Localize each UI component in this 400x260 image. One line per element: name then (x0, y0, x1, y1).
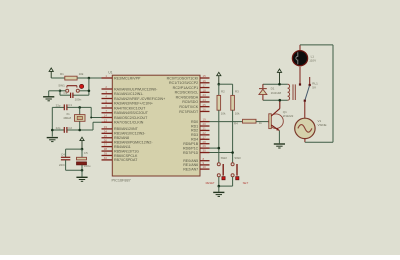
svg-text:RB1/AN10/C12IN3-: RB1/AN10/C12IN3- (114, 132, 146, 136)
svg-text:RC5/SDO: RC5/SDO (182, 100, 198, 104)
svg-text:22p: 22p (56, 126, 61, 130)
svg-text:RD2: RD2 (191, 129, 198, 133)
svg-text:38: 38 (104, 147, 108, 151)
svg-text:RB5/AN13/T1G: RB5/AN13/T1G (114, 149, 139, 153)
svg-text:220n: 220n (59, 163, 66, 167)
svg-text:RA7/OSC1/CLKIN: RA7/OSC1/CLKIN (114, 121, 144, 125)
svg-text:RA3/AN3/VREF+/C1IN+: RA3/AN3/VREF+/C1IN+ (114, 102, 153, 106)
svg-text:RC3/SCK/SCL: RC3/SCK/SCL (175, 91, 199, 95)
svg-text:RD7/P1D: RD7/P1D (183, 151, 199, 155)
svg-text:10k: 10k (79, 72, 84, 76)
svg-text:RD1: RD1 (191, 124, 198, 128)
svg-text:RB3/AN9/PGM/C12IN2-: RB3/AN9/PGM/C12IN2- (114, 140, 153, 144)
svg-text:RC4/SDI/SDA: RC4/SDI/SDA (176, 95, 199, 99)
svg-text:15: 15 (203, 74, 207, 78)
svg-text:28: 28 (203, 140, 207, 144)
svg-text:RD3: RD3 (191, 133, 198, 137)
svg-text:30: 30 (203, 149, 207, 153)
svg-text:RA5/AN4/SS/C2OUT: RA5/AN4/SS/C2OUT (114, 111, 149, 115)
svg-text:27: 27 (203, 135, 207, 139)
svg-text:20: 20 (203, 122, 207, 126)
svg-text:RB0/AN12/INT: RB0/AN12/INT (114, 127, 139, 131)
svg-text:PIC16F887: PIC16F887 (112, 179, 131, 183)
svg-text:RC1/T1OSI/CCP2: RC1/T1OSI/CCP2 (169, 81, 198, 85)
svg-text:17: 17 (203, 84, 207, 88)
svg-text:29: 29 (203, 144, 207, 148)
svg-text:13: 13 (104, 118, 108, 122)
svg-text:110V: 110V (309, 59, 316, 63)
svg-text:36: 36 (104, 138, 108, 142)
svg-text:23: 23 (203, 93, 207, 97)
svg-text:RA1/AN1/C12IN1-: RA1/AN1/C12IN1- (114, 92, 144, 96)
svg-text:C2: C2 (68, 126, 72, 130)
svg-text:RA6/OSC2/CLKOUT: RA6/OSC2/CLKOUT (114, 116, 148, 120)
svg-text:34: 34 (104, 129, 108, 133)
svg-text:R4: R4 (234, 122, 238, 126)
svg-text:10: 10 (203, 165, 207, 169)
svg-text:RC0/T1OSO/T1CKI: RC0/T1OSO/T1CKI (167, 76, 199, 80)
svg-text:14: 14 (104, 114, 108, 118)
svg-text:25: 25 (203, 103, 207, 107)
svg-text:RESET: RESET (206, 181, 215, 185)
svg-text:35: 35 (104, 134, 108, 138)
svg-text:RB4/AN11: RB4/AN11 (114, 145, 131, 149)
svg-text:RC7/RX/DT: RC7/RX/DT (179, 110, 199, 114)
svg-text:SW1: SW1 (58, 84, 65, 88)
svg-text:19: 19 (203, 118, 207, 122)
svg-text:RE2/AN7: RE2/AN7 (183, 167, 198, 171)
svg-text:24: 24 (203, 98, 207, 102)
svg-text:RD0: RD0 (191, 120, 198, 124)
svg-text:22p: 22p (56, 104, 61, 108)
svg-text:33: 33 (104, 125, 108, 129)
svg-text:10k: 10k (221, 112, 226, 116)
svg-text:16: 16 (203, 79, 207, 83)
svg-text:2N2222: 2N2222 (283, 114, 294, 118)
svg-text:C1: C1 (68, 103, 72, 107)
svg-text:RC6/TX/CK: RC6/TX/CK (179, 105, 198, 109)
svg-text:RE3/MCLR/VPP: RE3/MCLR/VPP (114, 76, 141, 80)
svg-text:RA0/AN0/ULPWU/C12IN0-: RA0/AN0/ULPWU/C12IN0- (114, 87, 158, 91)
svg-text:39: 39 (104, 152, 108, 156)
svg-text:R3: R3 (235, 90, 239, 94)
svg-text:RB7/ICSPDAT: RB7/ICSPDAT (114, 158, 138, 162)
svg-text:37: 37 (104, 143, 108, 147)
svg-text:VSINE: VSINE (318, 123, 327, 127)
svg-text:RB6/ICSPCLK: RB6/ICSPCLK (114, 154, 138, 158)
svg-text:RA4/T0CKI/C1OUT: RA4/T0CKI/C1OUT (114, 106, 146, 110)
svg-text:RA2/AN2/VREF-/CVREF/C2IN+: RA2/AN2/VREF-/CVREF/C2IN+ (114, 97, 165, 101)
svg-text:RC2/P1A/CCP1: RC2/P1A/CCP1 (173, 86, 199, 90)
svg-text:RD4: RD4 (191, 138, 198, 142)
svg-text:R1: R1 (60, 72, 64, 76)
svg-text:26: 26 (203, 108, 207, 112)
svg-text:100u: 100u (84, 164, 91, 168)
svg-text:RD5/P1B: RD5/P1B (183, 142, 199, 146)
svg-text:10k: 10k (235, 112, 240, 116)
svg-text:C5: C5 (84, 151, 88, 155)
svg-text:18: 18 (203, 88, 207, 92)
svg-text:SW3: SW3 (234, 156, 241, 160)
svg-text:C3: C3 (64, 91, 68, 95)
svg-text:22: 22 (203, 131, 207, 135)
svg-text:SW2: SW2 (221, 156, 228, 160)
svg-text:5V: 5V (312, 85, 316, 89)
svg-text:100n: 100n (75, 98, 82, 102)
svg-text:4MHZ: 4MHZ (63, 116, 71, 120)
svg-text:U1: U1 (108, 71, 112, 75)
svg-text:SET: SET (243, 181, 249, 185)
svg-text:R2: R2 (221, 90, 225, 94)
svg-text:C4: C4 (61, 153, 65, 157)
svg-text:RD6/P1C: RD6/P1C (183, 146, 199, 150)
svg-text:40: 40 (104, 156, 108, 160)
svg-text:21: 21 (203, 127, 207, 131)
svg-text:1N4148: 1N4148 (271, 91, 282, 95)
svg-text:RB2/AN8: RB2/AN8 (114, 136, 129, 140)
